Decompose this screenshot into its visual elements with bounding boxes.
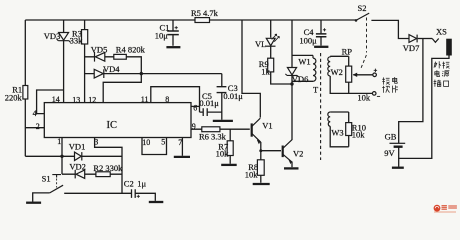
svg-text:0.01μ: 0.01μ xyxy=(223,91,243,101)
resistor R6 xyxy=(202,127,220,132)
wire: S1 left to ground xyxy=(33,193,50,202)
diode VD2 xyxy=(76,170,85,178)
svg-text:11: 11 xyxy=(141,95,149,104)
svg-text:33k: 33k xyxy=(70,36,84,46)
svg-text:R6 3.3k: R6 3.3k xyxy=(199,131,227,141)
text 电源 char 电 xyxy=(435,70,440,76)
wire: pin11 to C5 node xyxy=(151,87,200,112)
wire: pin4 jog xyxy=(37,90,64,114)
svg-text:4: 4 xyxy=(33,109,37,118)
svg-text:R2 330k: R2 330k xyxy=(93,163,123,173)
ground (C1) xyxy=(166,46,180,48)
ground (R8) xyxy=(253,183,270,185)
wire: C5 row xyxy=(200,111,222,113)
wire: C4 leads xyxy=(320,20,322,46)
junction dot (V1 emitter / V2 base / R8) xyxy=(259,149,262,152)
resistor R9 xyxy=(268,58,274,72)
resistor R7 xyxy=(227,141,233,156)
svg-text:VD1: VD1 xyxy=(69,141,86,151)
terminal - sign xyxy=(377,95,380,97)
svg-text:V2: V2 xyxy=(293,149,303,159)
svg-text:5: 5 xyxy=(161,137,165,146)
svg-text:VD3: VD3 xyxy=(44,31,61,41)
resistor R8 xyxy=(257,160,264,176)
diode VD4 xyxy=(94,69,103,78)
transistor V2 xyxy=(282,146,284,158)
svg-text:10k: 10k xyxy=(216,148,230,158)
svg-text:3: 3 xyxy=(94,138,98,147)
ground (C2) xyxy=(149,201,164,203)
zener diode VD3 xyxy=(59,33,69,41)
wire: pin10-pin5 bracket xyxy=(142,138,167,155)
text 插口 char 口 xyxy=(444,81,449,86)
wire: battery minus ground lead xyxy=(398,158,400,166)
svg-text:VD5: VD5 xyxy=(91,45,108,55)
wire: pin6 stub xyxy=(191,105,200,107)
svg-text:IC: IC xyxy=(107,120,118,131)
plug XS pin (filled) xyxy=(447,39,452,55)
svg-text:R5 4.7k: R5 4.7k xyxy=(191,8,219,18)
capacitor C2 xyxy=(132,189,136,198)
wire: W2 loop xyxy=(330,56,372,93)
wire: S2 right to VD7 xyxy=(371,20,409,38)
svg-text:W2: W2 xyxy=(331,67,343,77)
transistor V1 xyxy=(251,123,253,136)
wire: W3 loop xyxy=(330,112,349,147)
text 电源 char 源 xyxy=(442,71,449,77)
capacitor C3 xyxy=(217,87,227,93)
ground (V2 emitter) xyxy=(284,167,299,169)
junction dot (VD1 anode / pin1) xyxy=(60,155,63,158)
svg-text:W1: W1 xyxy=(298,56,310,66)
svg-text:7: 7 xyxy=(178,138,182,147)
wire: C1 leads xyxy=(172,20,174,46)
battery GB plates xyxy=(390,142,406,144)
switch S2 xyxy=(356,13,369,20)
svg-text:10μ: 10μ xyxy=(155,30,169,40)
wire: pin12 jog xyxy=(103,74,141,103)
svg-text:VD2: VD2 xyxy=(69,161,86,171)
svg-text:6: 6 xyxy=(193,104,197,113)
svg-text:12: 12 xyxy=(88,95,96,104)
wire: +9V top rail xyxy=(25,19,356,21)
svg-text:R4 820k: R4 820k xyxy=(116,45,146,55)
ground (S1) xyxy=(26,202,41,204)
wire: VD4 row xyxy=(85,73,222,75)
terminal + (electrode pad) xyxy=(373,73,377,77)
wire: V2 emitter ground lead xyxy=(291,162,293,168)
IC U1 body xyxy=(44,103,191,138)
wire: V1 collector feed from rail xyxy=(242,20,260,118)
terminal + sign xyxy=(374,69,377,72)
wire: R7 branch xyxy=(229,129,231,164)
wire: pin 2 stub xyxy=(25,127,44,129)
wire: pin1 vertical xyxy=(61,138,63,175)
wire: VD2-R2 row xyxy=(62,173,122,175)
svg-text:GB: GB xyxy=(385,132,397,142)
svg-text:14: 14 xyxy=(52,95,60,104)
svg-text:VD6: VD6 xyxy=(292,74,309,84)
resistor R3 xyxy=(82,30,88,44)
resistor R1 xyxy=(23,86,28,100)
wire: pin9 to R6 to V1 base xyxy=(191,128,250,130)
svg-text:1k: 1k xyxy=(261,66,270,76)
wire: VD3/pin14 vertical xyxy=(63,20,65,103)
wire: R3/pin13 vertical xyxy=(84,20,86,103)
text 插口 char 插 xyxy=(434,80,441,87)
ground (C3/C5) xyxy=(213,120,233,122)
transformer winding W2 xyxy=(328,56,330,76)
wire: charge branch to battery plus xyxy=(399,39,423,144)
svg-text:C2: C2 xyxy=(124,178,134,188)
socket XS contact hook xyxy=(432,39,439,43)
svg-text:10k: 10k xyxy=(245,169,258,179)
resistor R4 xyxy=(114,54,127,59)
capacitor C1 (electrolytic) xyxy=(167,31,179,35)
resistor R2 xyxy=(96,172,110,177)
junction dot (S2 pivot) xyxy=(355,19,358,22)
transformer winding W3 xyxy=(328,112,330,126)
wire: C2 to ground xyxy=(135,193,155,201)
potentiometer RP wiper arrow xyxy=(353,74,358,76)
junction dot (VD6/R9/V2 collector) xyxy=(290,82,293,85)
svg-text:9: 9 xyxy=(192,122,196,131)
resistor R10 xyxy=(346,123,352,136)
diode VD7 xyxy=(409,35,417,43)
wire: VD1 anode row xyxy=(25,155,74,157)
wire: R1 branch vertical (rail to pin2 to VD1 row) xyxy=(24,20,26,156)
ground (R7) xyxy=(221,164,237,166)
wire: VD7 cathode to XS hook xyxy=(418,38,433,40)
wire: RP wiper to + terminal xyxy=(354,74,373,76)
transformer core T xyxy=(320,53,322,160)
text 极片 char 片 xyxy=(393,85,399,92)
ground (pin7) xyxy=(174,156,190,158)
text 极片 char 极 xyxy=(382,86,389,93)
diode VD1 xyxy=(75,152,82,160)
ground (GB) xyxy=(392,167,404,169)
svg-text:T: T xyxy=(313,85,319,95)
svg-text:S1: S1 xyxy=(42,173,51,183)
switch S1 pushbutton xyxy=(52,175,61,178)
svg-text:VD4: VD4 xyxy=(103,64,120,74)
potentiometer RP body xyxy=(346,66,352,82)
svg-text:1μ: 1μ xyxy=(137,178,146,188)
svg-text:10k: 10k xyxy=(357,92,371,102)
text 接电 (electrode) char 接 xyxy=(382,77,389,84)
svg-text:2: 2 xyxy=(36,122,40,131)
text 外接 char 接 xyxy=(442,62,449,69)
svg-text:220k: 220k xyxy=(5,93,23,103)
transformer winding W1 xyxy=(313,55,316,81)
svg-text:10k: 10k xyxy=(352,129,366,139)
wire: pin3 to node xyxy=(95,138,122,194)
wire: S1 right to C2 xyxy=(64,192,131,194)
svg-text:13: 13 xyxy=(72,96,80,105)
svg-text:0.01μ: 0.01μ xyxy=(199,98,219,108)
wire: VL/R9 branch vertical xyxy=(271,20,292,84)
capacitor C5 xyxy=(203,108,207,116)
svg-text:10: 10 xyxy=(142,138,150,147)
switch S2 to RP link (dashed) xyxy=(366,18,368,53)
zener diode VD6 xyxy=(287,68,296,75)
svg-text:W3: W3 xyxy=(331,128,343,138)
junction dot (R4/VD4/pin12) xyxy=(140,72,143,75)
svg-text:8: 8 xyxy=(165,95,169,104)
wire: VD1 cathode row xyxy=(82,155,122,157)
svg-text:XS: XS xyxy=(436,27,447,37)
wire: C3 branch vertical xyxy=(221,74,223,120)
ground (C4) xyxy=(314,46,328,48)
terminal - (electrode pad) xyxy=(372,92,376,96)
diode VD5 xyxy=(95,52,105,61)
wire: pin7 ground lead xyxy=(181,138,183,156)
svg-text:VL: VL xyxy=(255,39,266,49)
wire: VD5-R4 row xyxy=(85,57,142,74)
svg-text:V1: V1 xyxy=(262,121,272,131)
svg-text:100μ: 100μ xyxy=(299,35,317,45)
wire: V1 emitter to V2 base and R8 xyxy=(261,142,281,183)
resistor R5 xyxy=(195,18,210,23)
watermark logo (red) xyxy=(434,205,441,212)
wire: VD6/W1/V2-collector vertical xyxy=(291,20,293,140)
wire: battery minus to XS sleeve xyxy=(399,55,449,158)
text 接电 char 电 xyxy=(393,77,398,83)
svg-text:RP: RP xyxy=(342,46,353,56)
text 外接 char 外 xyxy=(434,61,441,68)
LED VL xyxy=(266,38,275,45)
svg-text:9V: 9V xyxy=(384,148,395,158)
capacitor C4 (electrolytic) xyxy=(316,34,327,37)
svg-text:VD7: VD7 xyxy=(403,43,420,53)
svg-text:S2: S2 xyxy=(358,3,367,13)
wire: W1 top and bottom xyxy=(292,55,313,81)
svg-text:1: 1 xyxy=(57,137,61,146)
